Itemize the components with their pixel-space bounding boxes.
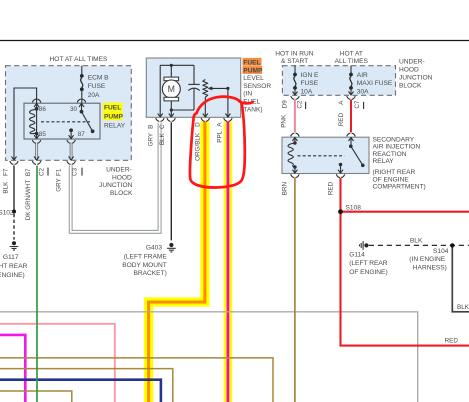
svg-text:BRACKET): BRACKET) (133, 270, 166, 277)
svg-text:FUSE: FUSE (88, 83, 106, 90)
svg-text:C7: C7 (354, 100, 361, 109)
svg-text:(IN: (IN (243, 91, 252, 98)
svg-text:FUEL: FUEL (243, 59, 260, 66)
svg-text:MAXI FUSE: MAXI FUSE (357, 80, 393, 87)
svg-text:C2: C2 (297, 100, 304, 109)
svg-text:(LEFT FRAME: (LEFT FRAME (124, 254, 168, 261)
svg-text:JUNCTION: JUNCTION (99, 182, 133, 189)
svg-text:REACTION: REACTION (373, 151, 407, 158)
svg-text:F7: F7 (3, 168, 10, 176)
svg-text:AIR: AIR (357, 72, 368, 79)
svg-text:G403: G403 (146, 245, 162, 252)
svg-text:TANK): TANK) (243, 107, 262, 114)
svg-text:ORG/BLK: ORG/BLK (194, 132, 201, 161)
svg-text:S104: S104 (433, 248, 449, 255)
svg-text:ECM B: ECM B (88, 74, 109, 81)
svg-text:BLK: BLK (159, 132, 166, 145)
svg-text:30A: 30A (357, 89, 369, 96)
svg-text:JUNCTION: JUNCTION (399, 74, 433, 81)
svg-text:IGN E: IGN E (301, 72, 320, 79)
svg-text:B: B (147, 125, 154, 129)
svg-text:PUMP: PUMP (104, 114, 124, 121)
svg-text:OF ENGINE): OF ENGINE) (349, 269, 387, 276)
svg-text:FUEL: FUEL (104, 105, 121, 112)
svg-text:LEVEL: LEVEL (243, 75, 264, 82)
svg-text:G117: G117 (3, 254, 19, 261)
svg-text:HOOD: HOOD (399, 66, 419, 73)
svg-text:HOOD: HOOD (112, 174, 132, 181)
svg-text:M: M (168, 84, 175, 94)
svg-text:87: 87 (78, 131, 86, 138)
svg-text:B7: B7 (25, 168, 32, 176)
svg-text:HOT IN RUN: HOT IN RUN (275, 50, 314, 57)
svg-text:C2: C2 (39, 167, 46, 176)
svg-text:& START: & START (281, 58, 308, 65)
svg-text:BLK: BLK (3, 181, 10, 194)
svg-text:30: 30 (70, 106, 78, 113)
svg-text:C3: C3 (72, 167, 79, 176)
svg-text:RELAY: RELAY (104, 123, 126, 130)
svg-text:HARNESS): HARNESS) (413, 265, 447, 272)
svg-text:A: A (338, 100, 345, 105)
svg-text:RED: RED (327, 181, 334, 195)
svg-text:SECONDARY: SECONDARY (373, 136, 415, 143)
svg-text:RELAY: RELAY (373, 158, 395, 165)
svg-text:COMPARTMENT): COMPARTMENT) (373, 184, 426, 191)
svg-text:C: C (159, 124, 166, 129)
svg-text:86: 86 (39, 106, 47, 113)
svg-text:BODY MOUNT: BODY MOUNT (122, 262, 167, 269)
svg-text:20A: 20A (88, 92, 100, 99)
svg-text:RED: RED (445, 338, 459, 345)
svg-text:SENSOR: SENSOR (243, 83, 271, 90)
svg-text:ALL TIMES: ALL TIMES (335, 58, 369, 65)
svg-text:RED: RED (338, 113, 345, 127)
svg-text:PPL: PPL (216, 130, 223, 142)
svg-text:BLK: BLK (410, 237, 423, 244)
svg-text:BLK: BLK (457, 304, 469, 311)
svg-text:HOT AT: HOT AT (340, 50, 363, 57)
svg-text:HOT AT ALL TIMES: HOT AT ALL TIMES (50, 56, 109, 63)
svg-text:DK GRN/WHT: DK GRN/WHT (25, 180, 32, 221)
svg-text:BLOCK: BLOCK (399, 82, 422, 89)
svg-text:UNDER-: UNDER- (106, 167, 132, 174)
svg-text:A: A (216, 122, 223, 127)
svg-text:(RIGHT REAR: (RIGHT REAR (373, 169, 416, 176)
svg-text:OF ENGINE): OF ENGINE) (0, 272, 25, 279)
svg-text:OF ENGINE: OF ENGINE (373, 176, 410, 183)
svg-text:S102: S102 (0, 209, 14, 216)
svg-text:GRY: GRY (147, 132, 154, 146)
svg-text:BLOCK: BLOCK (110, 190, 133, 197)
svg-text:UNDER-: UNDER- (399, 58, 425, 65)
svg-text:PUMP: PUMP (243, 68, 263, 75)
svg-text:F1: F1 (55, 168, 62, 176)
svg-text:10A: 10A (301, 89, 313, 96)
svg-text:BRN: BRN (282, 182, 289, 196)
svg-text:D: D (194, 122, 201, 127)
svg-text:(RIGHT REAR: (RIGHT REAR (0, 263, 28, 270)
svg-text:(IN ENGINE: (IN ENGINE (409, 256, 446, 263)
svg-text:G114: G114 (349, 252, 365, 259)
svg-text:85: 85 (39, 131, 47, 138)
svg-text:(LEFT REAR: (LEFT REAR (349, 260, 388, 267)
svg-text:FUSE: FUSE (301, 80, 319, 87)
svg-text:GRY: GRY (55, 177, 62, 191)
svg-text:PNK: PNK (280, 114, 287, 128)
svg-text:AIR INJECTION: AIR INJECTION (373, 144, 421, 151)
svg-text:S108: S108 (346, 205, 362, 212)
svg-text:D9: D9 (281, 100, 288, 109)
